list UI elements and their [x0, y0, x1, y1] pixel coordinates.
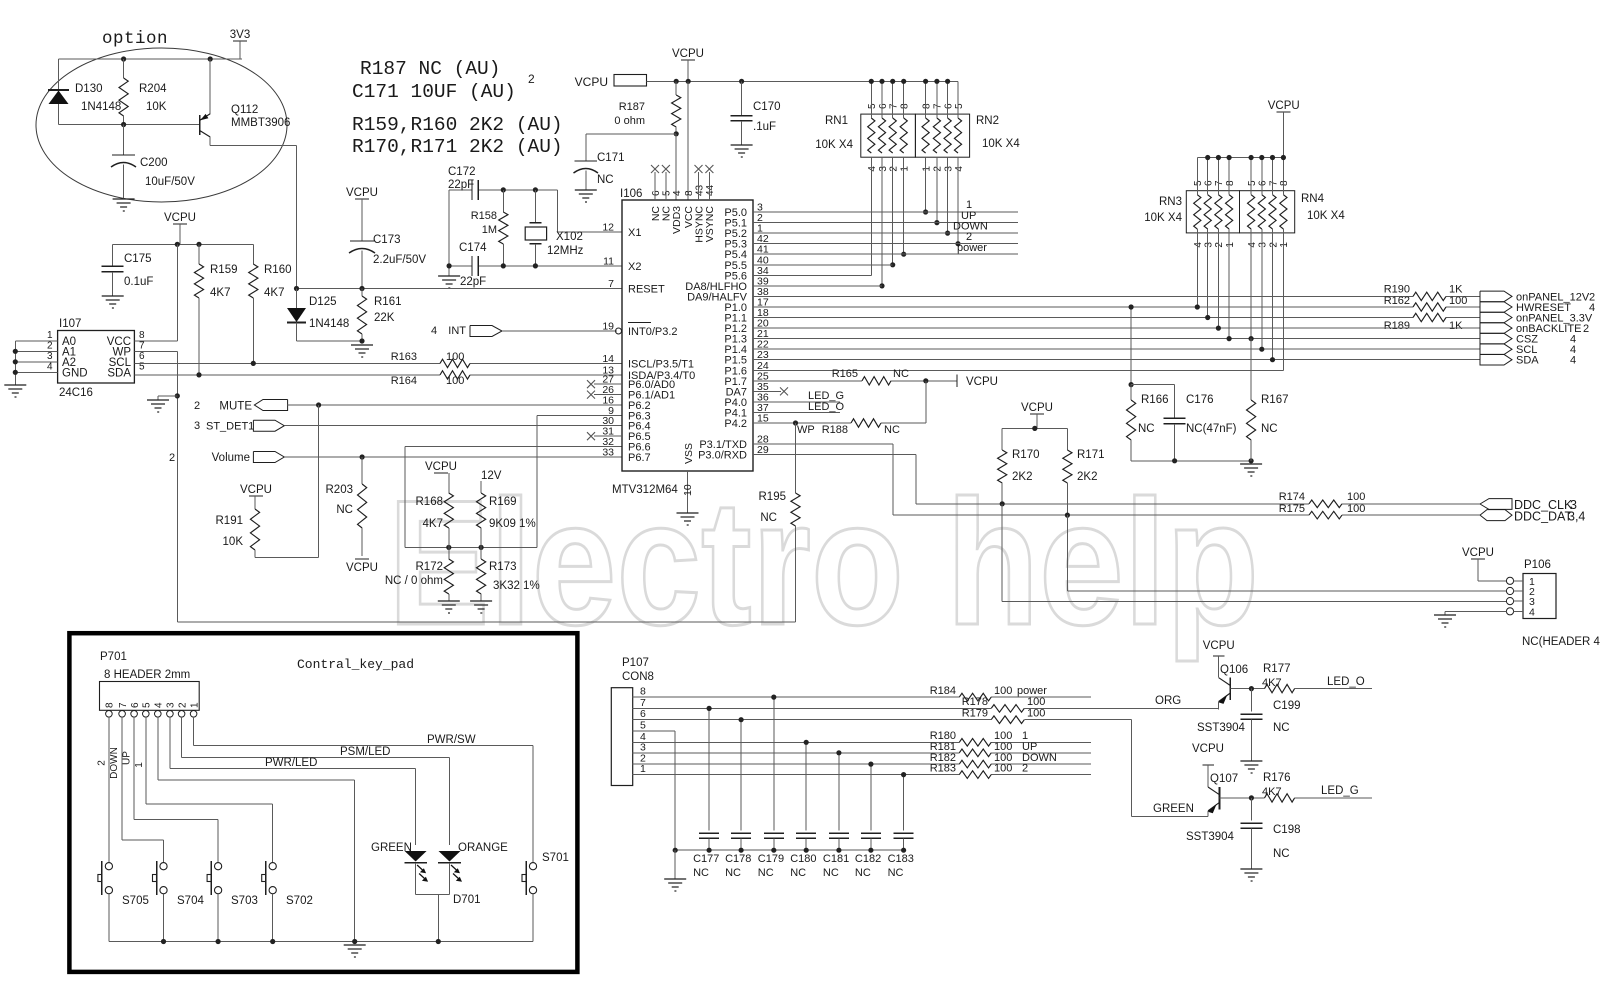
- node A2: [13, 359, 18, 364]
- svg-text:R178: R178: [962, 696, 988, 708]
- resistor R204: [123, 59, 125, 78]
- svg-text:VCPU: VCPU: [1462, 547, 1494, 559]
- svg-text:9K09 1%: 9K09 1%: [489, 518, 536, 530]
- svg-text:S703: S703: [231, 895, 258, 907]
- svg-text:SST3904: SST3904: [1186, 831, 1235, 843]
- svg-text:10: 10: [682, 484, 694, 496]
- resistor R161: [361, 289, 363, 297]
- svg-text:1: 1: [1279, 242, 1290, 248]
- capacitor C176: [1174, 385, 1176, 418]
- capacitor C182: [870, 764, 872, 830]
- wire P1.5 SDA: [753, 359, 1480, 361]
- IC I106 MTV312M64 box: [622, 200, 753, 471]
- node RESET-R161: [359, 286, 364, 291]
- capacitor C171: [575, 160, 598, 162]
- resistor R190: [1413, 292, 1446, 300]
- wire ground tap: [158, 395, 177, 397]
- ground keypad: [344, 945, 366, 957]
- wire R166 C176 bottom: [1131, 460, 1251, 462]
- wire RN1-3 down: [881, 157, 883, 286]
- svg-text:NC: NC: [823, 867, 839, 879]
- svg-text:DDC_DAT: DDC_DAT: [1514, 510, 1572, 524]
- svg-text:4: 4: [954, 166, 965, 172]
- node R187 bottom: [674, 131, 679, 136]
- resistor R158: [502, 190, 504, 212]
- svg-text:4: 4: [672, 190, 683, 196]
- VCPU box symbol: [614, 75, 647, 87]
- svg-text:C179: C179: [758, 853, 784, 865]
- wire P4.2 WP: [753, 422, 851, 424]
- wire RN3-3 down: [1207, 229, 1209, 318]
- transistor Q112: [199, 115, 201, 135]
- svg-text:X2: X2: [628, 261, 641, 273]
- resistor R203: [361, 457, 363, 484]
- wire R191 to MUTE: [255, 557, 319, 559]
- svg-text:P4.2: P4.2: [724, 418, 747, 430]
- wire R168 R169 bottom: [405, 546, 537, 548]
- svg-text:1: 1: [47, 330, 53, 341]
- svg-text:PWR/LED: PWR/LED: [265, 757, 317, 769]
- svg-text:6: 6: [640, 708, 646, 720]
- ground C200: [113, 199, 135, 211]
- wire Q107 base: [1220, 797, 1265, 799]
- P107 box: [611, 688, 632, 786]
- wire S703 bottom: [217, 894, 219, 942]
- svg-text:R166: R166: [1141, 394, 1169, 406]
- IC I107 box: [58, 331, 135, 384]
- svg-text:2K2: 2K2: [1012, 471, 1032, 483]
- resistor R182: [959, 760, 991, 768]
- I106 INT0 overline: [628, 322, 651, 324]
- svg-text:VCPU: VCPU: [425, 461, 457, 473]
- wire Q112 collector to RESET net: [210, 145, 296, 147]
- wire caps bottom bus: [675, 849, 903, 851]
- svg-text:VCPU: VCPU: [164, 212, 196, 224]
- wire RN1-4 down: [870, 157, 872, 275]
- svg-text:100: 100: [446, 375, 464, 387]
- flag DDC_CLK: [1480, 499, 1512, 510]
- svg-text:3: 3: [943, 166, 954, 172]
- wire RN1-2 down: [892, 157, 894, 265]
- svg-text:power: power: [957, 242, 987, 254]
- wire R166-C176 top: [1131, 384, 1175, 386]
- wire P701 pin4 to ground bus: [157, 717, 159, 780]
- wire RN4-2 down: [1272, 229, 1274, 360]
- wire LED_G: [1295, 797, 1372, 799]
- svg-text:3: 3: [47, 351, 53, 362]
- wire RN2-2 down: [936, 157, 938, 222]
- switch S704: [160, 863, 167, 870]
- P106 box: [1523, 574, 1556, 619]
- svg-text:10K: 10K: [223, 536, 244, 548]
- svg-text:2: 2: [1268, 242, 1279, 248]
- svg-text:8: 8: [921, 103, 932, 109]
- svg-text:5: 5: [142, 702, 153, 708]
- svg-text:R168: R168: [416, 496, 444, 508]
- node R166 top: [1129, 382, 1134, 387]
- wire pin5 bus to ground: [674, 850, 676, 879]
- capacitor C181: [838, 753, 840, 831]
- svg-text:6: 6: [943, 103, 954, 109]
- wire R187 to VDD3 pin: [675, 134, 677, 200]
- svg-text:4: 4: [1247, 242, 1258, 248]
- svg-text:C178: C178: [725, 853, 751, 865]
- svg-text:8: 8: [900, 103, 911, 109]
- wires RN tops to rail: [870, 81, 872, 118]
- svg-text:ISCL/P3.5/T1: ISCL/P3.5/T1: [628, 358, 694, 370]
- svg-text:C177: C177: [693, 853, 719, 865]
- I106 P6.1 stub NC: [594, 394, 622, 396]
- resistor R171: [1066, 428, 1068, 450]
- wire VCPU rail left: [113, 243, 254, 245]
- wire P4.0 LED_G: [753, 401, 840, 403]
- svg-text:D701: D701: [453, 894, 481, 906]
- resistor R181: [959, 749, 991, 757]
- diode D125: [296, 289, 298, 309]
- wire S702 bottom: [272, 894, 274, 942]
- svg-text:2: 2: [194, 400, 200, 412]
- svg-text:3: 3: [1204, 242, 1215, 248]
- node P1.7 junction: [923, 378, 928, 383]
- node bus-LED: [436, 939, 441, 944]
- svg-text:MUTE: MUTE: [219, 401, 252, 413]
- resistor R188: [851, 419, 881, 427]
- svg-text:R187 NC (AU): R187 NC (AU): [360, 58, 500, 80]
- svg-text:7: 7: [118, 702, 129, 708]
- svg-text:I107: I107: [59, 318, 81, 330]
- svg-text:4: 4: [1529, 606, 1535, 618]
- svg-text:C182: C182: [855, 853, 881, 865]
- svg-text:2: 2: [169, 452, 175, 464]
- svg-text:.1uF: .1uF: [753, 121, 776, 133]
- wire R170 R171 rail: [1002, 427, 1067, 429]
- node Q106 base: [1249, 686, 1254, 691]
- LED D701 orange: [439, 851, 461, 862]
- wire P3.1 TXD: [753, 443, 893, 445]
- svg-text:R170: R170: [1012, 449, 1040, 461]
- svg-text:1: 1: [134, 762, 145, 768]
- svg-text:GREEN: GREEN: [371, 842, 412, 854]
- RN4 box: [1240, 191, 1295, 233]
- svg-text:6: 6: [130, 702, 141, 708]
- wire RN4-1 down: [1282, 229, 1284, 248]
- svg-text:2: 2: [1214, 242, 1225, 248]
- svg-text:1N4148: 1N4148: [309, 318, 349, 330]
- svg-text:LED_G: LED_G: [1321, 785, 1359, 797]
- wire P1.0 HWRESET: [753, 306, 1413, 308]
- svg-text:INT0/P3.2: INT0/P3.2: [628, 326, 678, 338]
- svg-text:R184: R184: [930, 685, 956, 697]
- svg-text:R161: R161: [374, 296, 402, 308]
- ground I107: [4, 385, 26, 397]
- svg-text:5: 5: [1247, 180, 1258, 186]
- svg-text:C200: C200: [140, 157, 168, 169]
- svg-text:8 HEADER 2mm: 8 HEADER 2mm: [104, 669, 190, 681]
- resistor R160: [252, 244, 254, 264]
- svg-text:6: 6: [1204, 180, 1215, 186]
- svg-text:0.1uF: 0.1uF: [124, 276, 153, 288]
- svg-text:44: 44: [705, 184, 716, 196]
- wire DA7 stub: [753, 390, 781, 392]
- svg-text:22pF: 22pF: [460, 276, 486, 288]
- resistor R184: [959, 693, 991, 701]
- svg-text:C173: C173: [373, 234, 401, 246]
- svg-text:C199: C199: [1273, 700, 1301, 712]
- wire P107 pin5 ground: [633, 730, 676, 732]
- node rail-R159: [196, 242, 201, 247]
- resistor R189: [1413, 313, 1446, 321]
- ground P107: [664, 879, 686, 891]
- wire SDA line: [134, 374, 440, 376]
- svg-text:R187: R187: [619, 101, 645, 113]
- svg-text:NC: NC: [725, 867, 741, 879]
- svg-text:ST_DET1: ST_DET1: [206, 421, 254, 433]
- svg-text:C174: C174: [459, 242, 487, 254]
- svg-text:100: 100: [994, 685, 1012, 697]
- wire CSZ to R167: [1250, 339, 1252, 400]
- wire P1.4 SCL: [753, 348, 1480, 350]
- switch S701: [529, 863, 536, 870]
- svg-text:5: 5: [954, 103, 965, 109]
- I106 P6.5 stub NC: [594, 435, 622, 437]
- wire P1.7 to R188: [925, 381, 927, 423]
- capacitor C199: [1250, 689, 1252, 712]
- svg-text:R177: R177: [1263, 663, 1291, 675]
- svg-text:R164: R164: [391, 375, 417, 387]
- wire DA8: [753, 285, 882, 287]
- svg-text:3: 3: [194, 420, 200, 432]
- svg-text:5: 5: [640, 720, 646, 732]
- node WP: [793, 420, 798, 425]
- wire RN2-3 down: [947, 157, 949, 233]
- wire VCC up: [176, 244, 178, 340]
- wire RN3-2 down: [1217, 229, 1219, 328]
- ground C171: [575, 190, 597, 202]
- svg-text:10uF/50V: 10uF/50V: [145, 176, 195, 188]
- keypad outer box: [69, 633, 577, 972]
- svg-text:2.2uF/50V: 2.2uF/50V: [373, 254, 426, 266]
- ground R173: [470, 601, 492, 613]
- svg-text:SDA: SDA: [1516, 355, 1539, 367]
- svg-text:P106: P106: [1524, 559, 1551, 571]
- RN1 box: [861, 114, 916, 157]
- svg-text:100: 100: [994, 763, 1012, 775]
- svg-text:8: 8: [1225, 180, 1236, 186]
- svg-text:R188: R188: [822, 424, 848, 436]
- wire P107 pin3 UP: [633, 752, 960, 754]
- resistor R195: [795, 423, 797, 493]
- svg-text:4: 4: [1570, 355, 1576, 367]
- svg-text:S701: S701: [542, 852, 569, 864]
- svg-text:C171: C171: [597, 152, 625, 164]
- svg-text:P6.7: P6.7: [628, 452, 651, 464]
- svg-text:6: 6: [1258, 180, 1269, 186]
- node GND I107: [13, 370, 18, 375]
- wire osc top: [449, 189, 472, 191]
- svg-text:6: 6: [139, 351, 145, 362]
- wire P1.7: [753, 380, 862, 382]
- capacitor C179: [773, 697, 775, 830]
- svg-text:7: 7: [1214, 180, 1225, 186]
- nodes caps bottom: [707, 848, 712, 853]
- ground P106: [1434, 615, 1456, 627]
- resistor R179: [991, 716, 1024, 724]
- svg-text:100: 100: [1449, 295, 1467, 307]
- svg-text:NC: NC: [790, 867, 806, 879]
- node C176 bottom: [1172, 458, 1177, 463]
- svg-text:2: 2: [889, 166, 900, 172]
- wire osc bottom: [449, 265, 472, 267]
- resistor R164: [440, 371, 470, 379]
- svg-text:3: 3: [878, 166, 889, 172]
- ground WP tap: [147, 400, 169, 412]
- svg-text:33: 33: [602, 447, 614, 459]
- resistor R169: [477, 493, 486, 528]
- node VCPU rail: [1032, 426, 1037, 431]
- wire P107 pin7 ORG: [633, 707, 992, 709]
- svg-text:1K: 1K: [1449, 320, 1463, 332]
- svg-text:NC: NC: [888, 867, 904, 879]
- svg-text:Volume: Volume: [212, 452, 250, 464]
- wire RN2-1 down: [925, 157, 927, 212]
- svg-text:R189: R189: [1384, 320, 1410, 332]
- svg-text:4: 4: [47, 362, 53, 373]
- svg-text:12MHz: 12MHz: [547, 245, 584, 257]
- wire P5.3 net 2: [753, 243, 1018, 245]
- svg-text:GREEN: GREEN: [1153, 803, 1194, 815]
- resistor R170: [1001, 428, 1003, 450]
- capacitor C180: [805, 742, 807, 830]
- svg-text:4K7: 4K7: [1262, 677, 1282, 689]
- svg-text:4: 4: [867, 166, 878, 172]
- svg-text:R170,R171 2K2 (AU): R170,R171 2K2 (AU): [352, 136, 563, 158]
- ground VSS: [677, 513, 699, 525]
- svg-text:19: 19: [602, 321, 614, 333]
- wire P5.2 net DOWN: [753, 232, 1018, 234]
- resistor R166: [1130, 385, 1132, 400]
- node Volume-R203: [360, 454, 365, 459]
- resistor R168: [444, 493, 453, 528]
- svg-text:1: 1: [900, 166, 911, 172]
- svg-text:7: 7: [933, 103, 944, 109]
- wire WP down loop: [176, 351, 178, 622]
- svg-text:1: 1: [921, 166, 932, 172]
- ground C198: [1240, 869, 1262, 881]
- wire P5.4 net power: [753, 253, 1018, 255]
- node osc-R158 bottom: [501, 263, 506, 268]
- svg-text:8: 8: [1279, 180, 1290, 186]
- svg-text:RN1: RN1: [825, 115, 848, 127]
- capacitor C198: [1250, 798, 1252, 821]
- svg-text:RN2: RN2: [976, 115, 999, 127]
- svg-text:2: 2: [1583, 323, 1589, 335]
- svg-text:NC: NC: [758, 867, 774, 879]
- resistor R174: [1309, 500, 1342, 508]
- wire option bottom: [59, 124, 200, 126]
- svg-text:GND: GND: [62, 368, 88, 380]
- svg-text:8: 8: [105, 702, 116, 708]
- svg-text:S702: S702: [286, 895, 313, 907]
- svg-text:MTV312M64: MTV312M64: [612, 484, 678, 496]
- svg-text:R167: R167: [1261, 394, 1289, 406]
- svg-text:C175: C175: [124, 253, 152, 265]
- node Q107 base: [1249, 795, 1254, 800]
- capacitor C173: [350, 240, 374, 242]
- svg-text:P701: P701: [100, 651, 127, 663]
- svg-text:X1: X1: [628, 227, 641, 239]
- svg-text:1N4148: 1N4148: [81, 101, 121, 113]
- svg-text:10K X4: 10K X4: [1307, 210, 1345, 222]
- node WP ground tap: [175, 393, 180, 398]
- ground C199: [1240, 761, 1262, 773]
- node rail-Q112: [208, 56, 213, 61]
- resistor R165: [862, 377, 891, 385]
- svg-text:10K X4: 10K X4: [815, 139, 853, 151]
- wire P107 pin4 net1: [633, 741, 960, 743]
- wire RN4-3 down: [1261, 229, 1263, 349]
- wire RN3 RN4 top rail: [1197, 157, 1283, 159]
- svg-text:Q107: Q107: [1210, 773, 1238, 785]
- node rail-VCC stem: [175, 242, 180, 247]
- svg-text:I106: I106: [620, 188, 642, 200]
- svg-text:12: 12: [602, 222, 614, 234]
- svg-text:Q106: Q106: [1220, 664, 1248, 676]
- resistor R173: [480, 547, 482, 559]
- svg-text:NC: NC: [336, 504, 353, 516]
- svg-text:11: 11: [603, 255, 614, 267]
- wire I107 address bus: [15, 340, 37, 342]
- switch S702: [269, 863, 276, 870]
- resistor R167: [1247, 400, 1256, 440]
- svg-text:Contral_key_pad: Contral_key_pad: [297, 657, 414, 672]
- svg-text:C183: C183: [888, 853, 914, 865]
- svg-text:VSS: VSS: [683, 443, 695, 464]
- svg-text:2: 2: [528, 72, 535, 86]
- wire P107 pin8 power: [633, 696, 960, 698]
- option circuit ellipse: [36, 48, 287, 202]
- wire S701 bottom: [532, 894, 534, 942]
- node rail R187: [674, 79, 679, 84]
- wire RESET: [297, 288, 623, 290]
- svg-text:NC: NC: [693, 867, 709, 879]
- node left leg: [447, 263, 452, 268]
- svg-text:C176: C176: [1186, 394, 1214, 406]
- svg-text:R179: R179: [962, 708, 988, 720]
- switch S703: [215, 863, 222, 870]
- node rail C170: [739, 79, 744, 84]
- svg-text:2: 2: [933, 166, 944, 172]
- svg-text:VDD3: VDD3: [671, 206, 683, 234]
- svg-text:1K: 1K: [1449, 284, 1463, 296]
- wire 3V3 rail: [59, 58, 242, 60]
- wire P1.3 CSZ: [753, 338, 1480, 340]
- svg-text:4K7: 4K7: [1262, 786, 1282, 798]
- svg-text:NC: NC: [893, 368, 909, 380]
- svg-text:VCPU: VCPU: [1268, 100, 1300, 112]
- wire P107 pin2 DOWN: [633, 763, 960, 765]
- node SCL-R160: [251, 361, 256, 366]
- svg-text:8: 8: [139, 330, 145, 341]
- svg-text:VSYNC: VSYNC: [704, 206, 716, 243]
- wire P5.5: [753, 264, 893, 266]
- svg-text:INT: INT: [448, 325, 466, 337]
- svg-text:R169: R169: [489, 496, 517, 508]
- svg-text:1: 1: [189, 702, 200, 708]
- wire Q106 base: [1230, 688, 1264, 690]
- resistor R178: [991, 705, 1024, 713]
- svg-text:4: 4: [431, 325, 437, 337]
- wire P701 pin3 PWR/LED: [169, 717, 171, 769]
